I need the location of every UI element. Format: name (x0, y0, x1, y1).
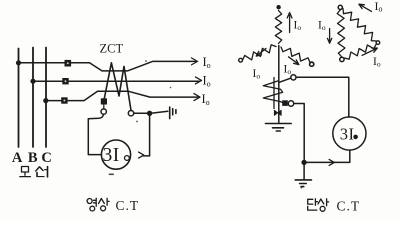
ZCT polarity square (101, 98, 107, 104)
hangul 상 (caption right) (318, 199, 329, 212)
arrow Io delta bottom (362, 48, 377, 55)
speck (145, 60, 147, 62)
ground left of right diagram (266, 124, 292, 132)
arrow phase C (194, 94, 200, 101)
CT mark square phase A (65, 60, 72, 67)
speck (301, 187, 303, 189)
svg-text:3I: 3I (103, 145, 120, 166)
svg-text:3I: 3I (340, 124, 355, 143)
wire lower terminal down (294, 104, 305, 160)
wye resistor right (281, 47, 310, 63)
arrow into meter bottom (329, 159, 334, 165)
delta vertex bottom-left (340, 57, 344, 61)
ground bottom (295, 180, 311, 187)
wye right end terminal (310, 62, 314, 66)
delta resistor top side (343, 9, 377, 42)
arrow Io delta top (359, 4, 372, 11)
wye top end dot (276, 5, 280, 9)
arrow Io along right resistor (289, 57, 299, 65)
svg-text:Io: Io (203, 74, 211, 89)
svg-text:Io: Io (203, 55, 211, 70)
svg-text:C.T: C.T (116, 198, 140, 213)
CT upper terminal (291, 75, 296, 80)
node bottom junction (301, 160, 306, 165)
CT polarity square right (282, 100, 288, 106)
ZCT terminal l (128, 111, 133, 116)
hangul 단 (caption right) (308, 199, 318, 210)
delta resistor bottom side (345, 45, 377, 60)
hangul 모 (busbar label) (20, 167, 31, 177)
svg-text:Io: Io (318, 20, 326, 33)
wire square to terminal k (103, 105, 105, 110)
wire junction to meter bottom (307, 151, 350, 163)
hangul 영 (caption left) (87, 198, 96, 211)
svg-text:C.T: C.T (337, 198, 361, 213)
svg-text:Io: Io (284, 64, 292, 77)
wye resistor left (243, 45, 277, 60)
node secondary junction (147, 111, 152, 116)
CT mark square phase B (62, 78, 68, 84)
wire k to meter loop (88, 114, 103, 154)
earth terminal sideways (170, 107, 176, 119)
speck (136, 121, 138, 123)
arrow into meter loop (139, 152, 144, 158)
hangul 상 (caption left) (99, 198, 110, 211)
node on bus A (16, 60, 21, 65)
meter 3Io right circle (333, 117, 366, 150)
svg-text:Io: Io (373, 56, 381, 69)
hangul 선 (busbar label) (36, 166, 48, 177)
svg-text:B: B (28, 150, 38, 166)
svg-text:Io: Io (294, 20, 302, 33)
wye left end terminal (239, 58, 243, 62)
wye neutral wire down (278, 46, 280, 123)
delta vertex right (376, 41, 380, 45)
arrow Io up beside top resistor (287, 13, 292, 33)
wye resistor top (275, 11, 281, 44)
speck (109, 174, 114, 176)
node on bus C (43, 98, 48, 103)
ZCT winding zigzag (104, 63, 131, 111)
arrow Io along left resistor (256, 49, 266, 57)
speck (170, 87, 172, 89)
bowtie polarity mark (274, 110, 281, 115)
svg-text:Io: Io (253, 68, 261, 81)
wire junction down to meter (144, 116, 150, 156)
bus A (18, 49, 20, 148)
wire phase C through ZCT (46, 91, 198, 100)
CT lower terminal (288, 101, 293, 106)
bus C (45, 48, 47, 148)
svg-text:Io: Io (202, 92, 210, 107)
svg-text:ZCT: ZCT (100, 42, 124, 56)
wire upper terminal to meter top (296, 77, 349, 117)
ZCT terminal k (101, 109, 106, 114)
node on bus B (30, 79, 35, 84)
CT winding zigzag right (263, 81, 283, 103)
svg-text:C: C (41, 150, 51, 166)
wire junction to ground (303, 165, 305, 180)
delta vertex top-left (338, 5, 342, 9)
delta resistor left side (337, 10, 345, 58)
svg-text:A: A (12, 150, 23, 166)
wire phase B through ZCT (33, 80, 200, 82)
CT core bar parallel (273, 78, 275, 109)
wire l to earth bar (134, 111, 168, 113)
arrow Io delta left down (327, 29, 331, 44)
CT mark square phase C (61, 97, 67, 103)
meter 3Io circle (101, 140, 130, 169)
bus B (32, 48, 34, 148)
wire phase A through ZCT (19, 61, 196, 71)
arrow phase B (195, 77, 201, 84)
svg-text:Io: Io (375, 0, 383, 14)
arrow phase A (191, 58, 197, 65)
CT tap wire to terminal (279, 78, 291, 82)
